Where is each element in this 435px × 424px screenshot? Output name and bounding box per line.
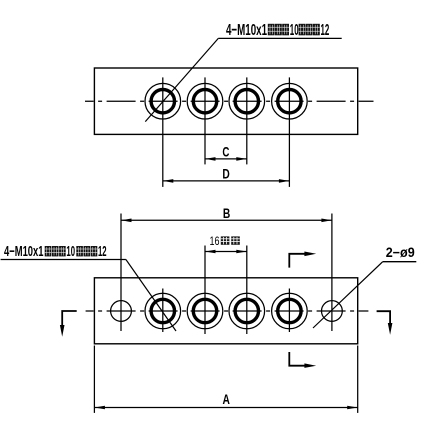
threaded hole 2 top view xyxy=(187,83,223,119)
svg-text:4−M10x1: 4−M10x1 xyxy=(4,244,44,260)
svg-text:12: 12 xyxy=(321,22,330,39)
section arrow lower xyxy=(289,352,304,366)
plate outline lower view xyxy=(94,278,357,344)
drilled hole right 9mm xyxy=(322,301,343,322)
underline top label xyxy=(218,37,341,39)
svg-text:10: 10 xyxy=(66,244,75,260)
threaded hole 2 lower view xyxy=(187,293,223,329)
vertical centerline / extension hole 3 xyxy=(246,77,248,164)
svg-text:C: C xyxy=(222,143,229,159)
underline lower-left label xyxy=(1,259,126,261)
vertical centerline hole 1 lower xyxy=(162,289,164,333)
svg-text:16: 16 xyxy=(210,236,220,248)
dimension A line xyxy=(94,407,357,409)
svg-text:2−ø9: 2−ø9 xyxy=(386,245,415,260)
dimension B line xyxy=(121,219,332,221)
horizontal centerline lower view xyxy=(86,310,369,312)
extension line right 9mm hole to B xyxy=(331,214,333,332)
extension line A left xyxy=(93,346,95,413)
threaded hole 4 top view xyxy=(272,83,308,119)
vertical centerline / extension hole 4 xyxy=(288,77,290,186)
dimension D line xyxy=(163,180,290,182)
plate outline top view xyxy=(94,68,357,134)
drilled hole left 9mm xyxy=(111,301,132,322)
threaded hole 1 top view xyxy=(145,83,181,119)
extension line A right xyxy=(357,346,359,413)
vertical centerline / extension hole 2 xyxy=(204,77,206,164)
vertical centerline / extension hole 1 xyxy=(162,77,164,186)
dimension C line xyxy=(205,158,247,160)
svg-text:A: A xyxy=(223,391,230,407)
svg-text:10: 10 xyxy=(290,22,299,39)
threaded hole 4 lower view xyxy=(272,293,308,329)
svg-text:4−M10x1: 4−M10x1 xyxy=(226,22,267,39)
section arrow upper xyxy=(289,254,304,268)
leader line lower-left label xyxy=(126,260,176,332)
extension line hole 2 to 16 dim xyxy=(204,246,206,335)
svg-text:12: 12 xyxy=(98,244,107,260)
extension line hole 3 to 16 dim xyxy=(246,246,248,335)
svg-text:D: D xyxy=(222,165,229,181)
leader line 2-dia9 label xyxy=(313,262,383,328)
svg-text:B: B xyxy=(223,205,230,221)
horizontal centerline top view xyxy=(85,100,374,102)
underline 2-dia9 label xyxy=(383,261,417,263)
section arrow right xyxy=(377,311,391,324)
leader line top label xyxy=(145,38,218,121)
vertical centerline hole 4 lower xyxy=(288,289,290,333)
threaded hole 3 lower view xyxy=(229,293,265,329)
threaded hole 1 lower view xyxy=(145,293,181,329)
extension line left 9mm hole to B xyxy=(120,214,122,332)
dimension 16 line xyxy=(205,251,247,253)
section arrow left xyxy=(62,311,76,326)
threaded hole 3 top view xyxy=(229,83,265,119)
